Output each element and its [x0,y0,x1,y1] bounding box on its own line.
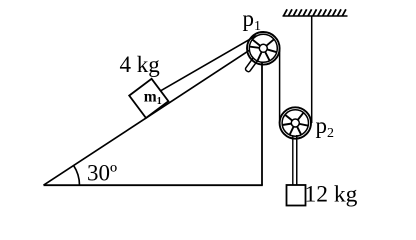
pulley p1 bracket [245,52,262,72]
wire: hanger rod right line [296,135,298,186]
svg-text:4 kg: 4 kg [120,52,161,77]
ceiling hatching [284,9,346,16]
wire: rope ceiling down to p2 [311,16,313,123]
wire: rope p1 down to p2 [279,48,281,123]
wire: hanger rod right line [296,123,298,186]
block 12 kg [287,185,306,206]
wire: incline hypotenuse [44,49,253,186]
wire: triangle vertical side [261,62,263,185]
pulley p2 [280,107,311,138]
ceiling line [283,15,348,17]
wire: rope from block to pulley p1 [161,36,256,91]
svg-text:12 kg: 12 kg [305,182,358,208]
block m1 [129,79,168,118]
pulley p1 [247,32,280,65]
wire: triangle base [44,184,263,186]
wire: hanger rod left line [292,123,294,186]
node 30 degree arc [74,166,80,186]
svg-text:30º: 30º [87,161,117,186]
